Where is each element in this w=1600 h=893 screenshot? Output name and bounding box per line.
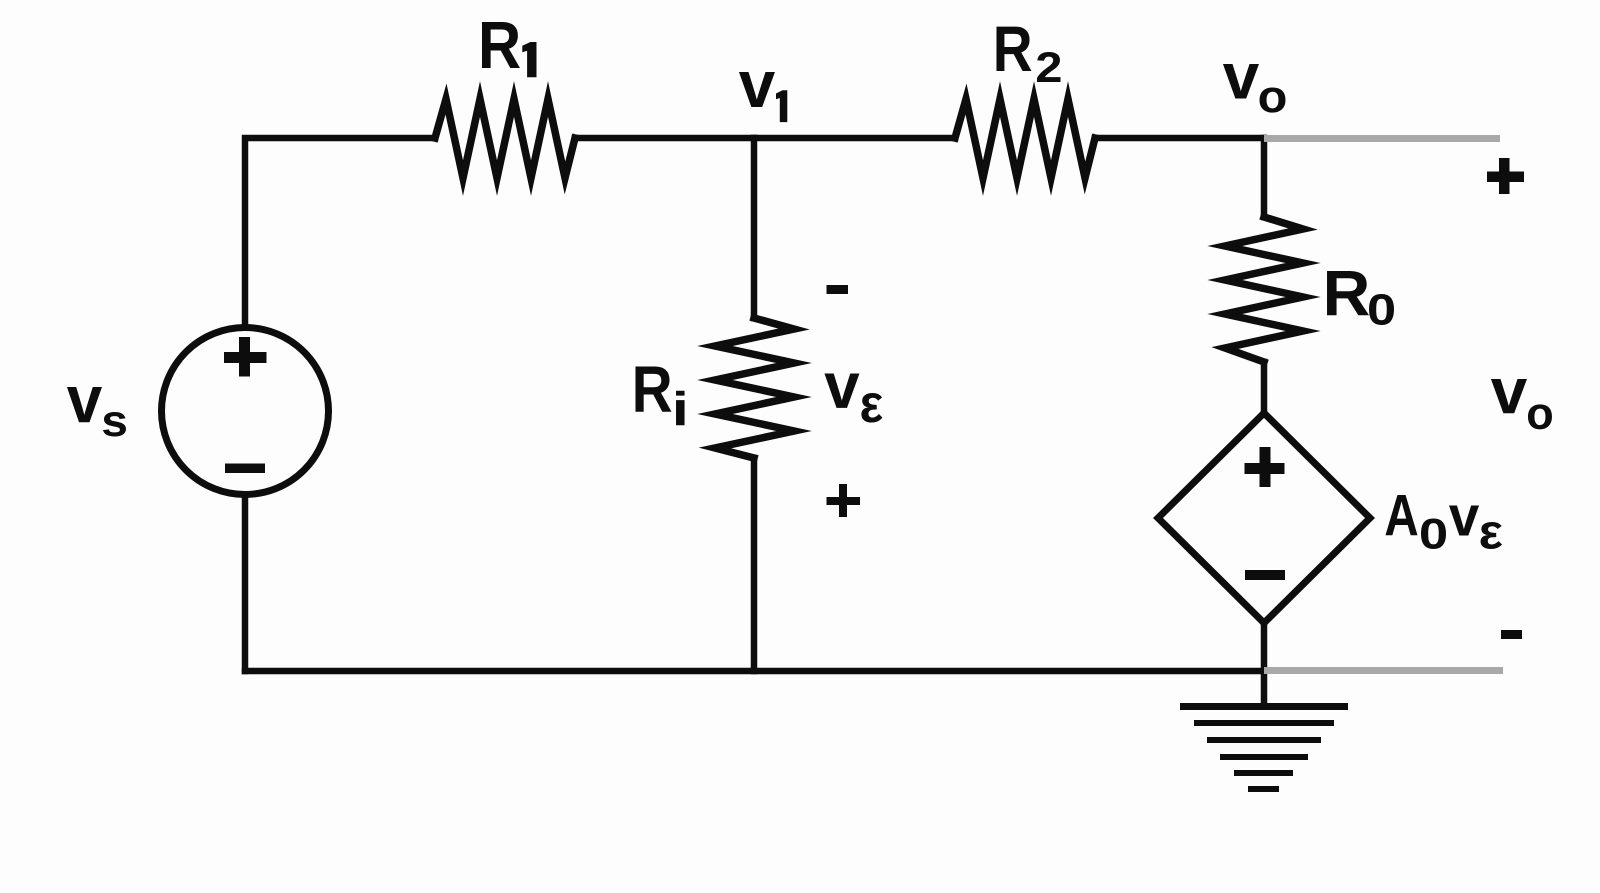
gray output lead bottom [1264,667,1503,674]
label vo at node vo [1223,64,1259,98]
label vo at output (right) [1491,379,1527,413]
resistor Ri [715,318,794,458]
dependent source A0ve (diamond) [1158,413,1370,623]
minus inside vs [225,464,265,474]
wire: R0 to dependent source [1261,362,1268,413]
resistor R0 [1225,217,1303,362]
plus inside dependent source [1245,447,1285,487]
wire: R2 to node vo [1095,135,1264,142]
label vs [67,387,102,422]
minus inside dependent source [1245,570,1285,580]
label v epsilon [824,374,859,408]
plus inside vs [224,337,267,377]
resistor R2 [955,99,1095,178]
plus terminal (top right) [1487,172,1524,183]
label Ri [635,366,671,411]
wire: node v1 to R2 [754,135,955,142]
wire: dependent source to bottom node and ground [1261,623,1268,704]
voltage source vs (circle) [162,328,329,495]
ground [1180,703,1348,792]
wire: node vo down to R0 [1261,138,1268,217]
plus below v epsilon [827,497,861,505]
wire: R1 to node v1 [575,135,754,142]
minus terminal (bottom right) [1501,630,1522,639]
label v1 [739,72,775,107]
label R2 [996,27,1031,71]
label R0 [1327,271,1369,315]
gray output lead top [1264,135,1500,142]
wire: source top to R1 (top-left corner) [245,138,435,325]
minus above v epsilon [827,285,849,294]
wire: node v1 down to Ri [751,138,758,318]
bottom wire [245,668,1264,675]
label A0ve [1385,495,1417,535]
wire: source bottom to bottom wire [242,497,249,671]
label R1 [482,22,520,68]
wire: Ri to bottom wire [751,458,758,671]
resistor R1 [435,99,575,178]
